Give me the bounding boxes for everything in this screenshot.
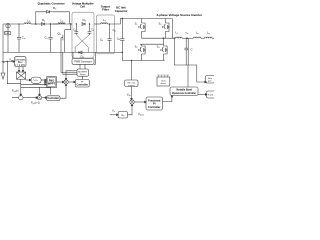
svg-text:S4: S4: [166, 75, 168, 77]
svg-text:Controller: Controller: [76, 83, 87, 86]
svg-text:C: C: [191, 47, 193, 51]
svg-text:driver: driver: [161, 82, 167, 85]
svg-text:MPPT: MPPT: [48, 82, 56, 86]
svg-text:Hysteresis Controller: Hysteresis Controller: [172, 92, 196, 95]
svg-text:PWM Generator: PWM Generator: [74, 60, 91, 63]
svg-text:Driver: Driver: [80, 73, 86, 76]
svg-text:Controller: Controller: [148, 105, 160, 109]
svg-text:Capacitor: Capacitor: [115, 9, 129, 13]
svg-text:3-phase Voltage Source Inverte: 3-phase Voltage Source Inverter: [156, 13, 202, 17]
svg-text:S3: S3: [163, 75, 165, 77]
svg-text:Cdc: Cdc: [112, 29, 116, 32]
svg-text:Controller: Controller: [47, 97, 58, 100]
svg-text:Ppv(n): Ppv(n): [12, 88, 19, 93]
svg-text:Ppv(n-1): Ppv(n-1): [31, 101, 40, 106]
svg-text:f = 2 kHz: f = 2 kHz: [15, 64, 26, 67]
svg-text:Filter: Filter: [102, 7, 110, 11]
svg-text:S1: S1: [157, 75, 159, 77]
svg-text:sensor: sensor: [128, 84, 135, 87]
svg-text:1-4Ω: 1-4Ω: [5, 33, 10, 35]
svg-text:Fund.: Fund.: [208, 94, 214, 96]
svg-text:Cell: Cell: [80, 5, 85, 9]
svg-text:MOSFET: MOSFET: [78, 71, 88, 73]
svg-text:S2: S2: [160, 75, 162, 77]
svg-text:Quadratic Converter: Quadratic Converter: [38, 1, 66, 5]
svg-text:Gate: Gate: [161, 79, 167, 82]
